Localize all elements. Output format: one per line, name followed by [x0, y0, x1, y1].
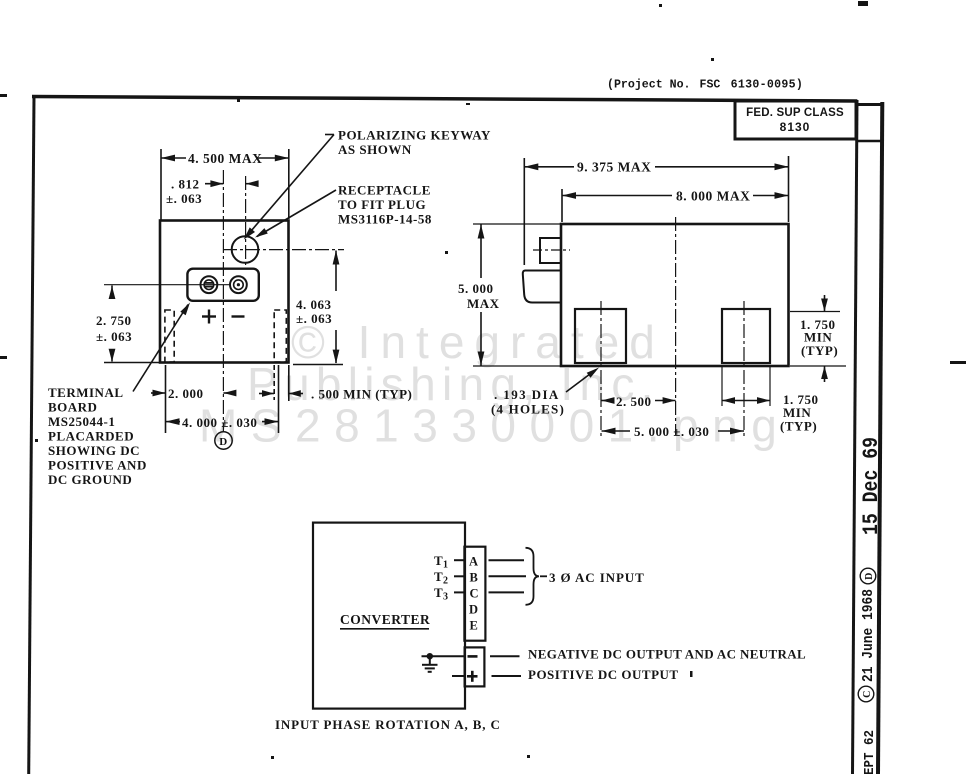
svg-text:POLARIZING KEYWAY: POLARIZING KEYWAY	[338, 128, 491, 143]
plus placard	[202, 310, 216, 324]
receptacle circle	[232, 236, 259, 263]
dimension 9.375 MAX	[524, 156, 788, 265]
balloon D	[215, 432, 232, 449]
svg-text:FSC: FSC	[700, 79, 721, 92]
svg-text:2. 500: 2. 500	[616, 394, 652, 409]
wire positive dc stub inside	[452, 675, 465, 677]
svg-text:B: B	[470, 571, 479, 585]
frame left border	[29, 96, 34, 774]
svg-text:±. 063: ±. 063	[96, 329, 132, 344]
wire T2 stub	[454, 575, 464, 577]
svg-text:(Project No.: (Project No.	[607, 79, 691, 92]
svg-text:D: D	[864, 572, 875, 580]
svg-text:POSITIVE AND: POSITIVE AND	[48, 458, 147, 473]
svg-text:D: D	[219, 436, 227, 448]
polarizing keyway leader	[244, 135, 334, 240]
left mounting foot (hidden)	[165, 310, 174, 362]
body centerline	[675, 217, 677, 435]
svg-text:±. 063: ±. 063	[296, 311, 332, 326]
right mounting foot (hidden)	[274, 310, 286, 362]
svg-text:(TYP): (TYP)	[780, 419, 817, 434]
wire phase B	[489, 575, 527, 577]
converter body side outline	[561, 224, 789, 366]
junction dot	[427, 653, 433, 659]
FED box bottom extension	[856, 140, 884, 143]
minus placard	[232, 315, 245, 317]
dimension .500 MIN (TYP)	[259, 365, 303, 401]
svg-text:3 Ø AC INPUT: 3 Ø AC INPUT	[549, 570, 645, 585]
terminal centerline vertical	[222, 170, 224, 431]
right foot centerline	[743, 301, 745, 437]
wire negative dc output	[490, 655, 520, 657]
svg-text:. 812: . 812	[171, 177, 200, 192]
svg-text:±. 063: ±. 063	[166, 191, 202, 206]
svg-text:A: A	[469, 555, 479, 569]
svg-text:C: C	[470, 587, 480, 601]
dimension .812 +-.063	[205, 180, 259, 187]
receptacle leader	[255, 190, 336, 238]
svg-text:21 June 1968: 21 June 1968	[861, 589, 877, 682]
svg-text:MS3116P-14-58: MS3116P-14-58	[338, 212, 432, 227]
svg-text:E: E	[470, 619, 479, 633]
svg-text:NEGATIVE DC OUTPUT AND AC NEUT: NEGATIVE DC OUTPUT AND AC NEUTRAL	[528, 647, 806, 662]
title strip: D in circle	[860, 568, 876, 584]
svg-text:15 Dec 69: 15 Dec 69	[859, 437, 884, 535]
screw terminal left	[201, 276, 218, 293]
svg-text:EPT 62: EPT 62	[862, 730, 878, 774]
svg-text:2. 750: 2. 750	[96, 313, 132, 328]
keyway flange side	[523, 271, 561, 303]
svg-text:MS25044-1: MS25044-1	[48, 414, 115, 429]
receptacle connector side	[540, 238, 561, 263]
frame top border	[32, 97, 857, 102]
svg-text:INPUT PHASE ROTATION A, B, C: INPUT PHASE ROTATION A, B, C	[275, 717, 501, 732]
svg-text:SHOWING DC: SHOWING DC	[48, 443, 140, 458]
svg-text:PLACARDED: PLACARDED	[48, 429, 134, 444]
DC minus terminal	[468, 655, 478, 658]
svg-text:DC GROUND: DC GROUND	[48, 472, 132, 487]
svg-text:FED. SUP CLASS: FED. SUP CLASS	[746, 107, 844, 119]
svg-text:6130-0095): 6130-0095)	[731, 79, 804, 92]
screw terminal right	[230, 276, 247, 293]
svg-text:BOARD: BOARD	[48, 400, 97, 415]
wire positive dc output	[492, 675, 522, 677]
AC terminal block A-E	[464, 547, 485, 641]
dimension .193 DIA (4 HOLES) with leader	[566, 368, 599, 393]
svg-text:C: C	[862, 690, 873, 698]
svg-text:. 193 DIA: . 193 DIA	[494, 387, 560, 402]
svg-text:(4 HOLES): (4 HOLES)	[491, 402, 565, 417]
svg-text:. 500 MIN (TYP): . 500 MIN (TYP)	[311, 387, 412, 402]
brace tip line	[540, 575, 547, 577]
title strip right border	[878, 102, 882, 774]
FED SUP CLASS box	[735, 101, 856, 139]
dimension 5.000 +-.030	[602, 428, 745, 435]
title strip top connector	[857, 103, 884, 106]
svg-text:CONVERTER: CONVERTER	[340, 612, 430, 627]
converter U1 box	[313, 523, 465, 709]
ground stem	[429, 656, 431, 664]
svg-text:(TYP): (TYP)	[801, 343, 838, 358]
svg-text:9. 375 MAX: 9. 375 MAX	[577, 160, 651, 175]
title strip left border	[853, 100, 858, 774]
wire T1 stub	[454, 559, 464, 561]
svg-text:8. 000 MAX: 8. 000 MAX	[676, 189, 750, 204]
svg-text:4. 063: 4. 063	[296, 297, 332, 312]
terminal board MS25044-1	[187, 269, 258, 301]
svg-text:TERMINAL: TERMINAL	[48, 385, 124, 400]
dimension 2.000	[151, 365, 236, 433]
brace 3-phase	[526, 548, 540, 605]
receptacle vertical centerline	[245, 176, 247, 266]
dimension 4.500 MAX	[161, 149, 289, 221]
svg-text:2. 000: 2. 000	[168, 386, 204, 401]
receptacle horizontal centerline	[223, 249, 344, 251]
svg-text:1: 1	[443, 560, 449, 571]
left foot side	[575, 309, 626, 363]
svg-text:5. 000 ±. 030: 5. 000 ±. 030	[634, 424, 709, 439]
title strip: C in circle	[858, 686, 874, 702]
svg-text:T: T	[434, 569, 443, 584]
svg-text:TO FIT PLUG: TO FIT PLUG	[338, 197, 426, 212]
svg-text:2: 2	[443, 576, 449, 587]
converter body front outline	[160, 221, 289, 363]
dimension 8.000 MAX	[562, 189, 789, 222]
svg-text:AS SHOWN: AS SHOWN	[338, 142, 412, 157]
DC terminal block	[465, 647, 485, 686]
dimension 5.000 MAX	[473, 224, 560, 366]
svg-text:4. 000 ±. 030: 4. 000 ±. 030	[182, 415, 257, 430]
dimension 1.750 MIN (TYP) lower right	[722, 366, 770, 406]
dimension 2.750 +-.063	[104, 286, 160, 363]
svg-text:5. 000: 5. 000	[458, 281, 494, 296]
dimension 4.063 +-.063	[293, 251, 343, 365]
svg-text:3: 3	[443, 592, 449, 603]
dimension 1.750 MIN (TYP) upper right	[790, 295, 846, 382]
dimension 4.000 +-.030	[166, 365, 279, 433]
wire phase A	[489, 559, 525, 561]
svg-text:MAX: MAX	[467, 296, 500, 311]
wire negative dc inside	[422, 655, 465, 657]
svg-text:4. 500 MAX: 4. 500 MAX	[188, 151, 262, 166]
wire T3 stub	[454, 591, 464, 593]
svg-text:RECEPTACLE: RECEPTACLE	[338, 183, 431, 198]
ground symbol	[422, 665, 438, 672]
svg-text:POSITIVE DC OUTPUT: POSITIVE DC OUTPUT	[528, 667, 679, 682]
svg-text:8130: 8130	[780, 120, 811, 134]
dimension 2.500	[602, 397, 676, 404]
DC plus terminal	[467, 671, 478, 682]
terminal board leader	[133, 303, 190, 392]
svg-text:T: T	[434, 553, 443, 568]
right foot side	[722, 309, 770, 363]
left foot centerline	[600, 301, 602, 437]
wire phase C	[489, 591, 525, 593]
connector centerline	[533, 249, 570, 251]
svg-text:D: D	[469, 603, 479, 617]
svg-text:T: T	[434, 585, 443, 600]
screw centerline extension left	[104, 284, 231, 286]
